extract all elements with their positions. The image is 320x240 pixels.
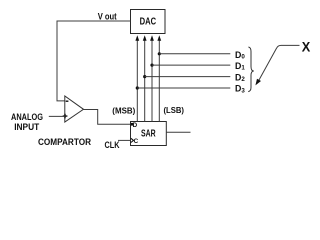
svg-text:CLK: CLK <box>105 140 120 151</box>
svg-text:COMPARTOR: COMPARTOR <box>38 137 91 148</box>
svg-text:C: C <box>134 138 139 145</box>
arrow from X to brace <box>255 45 299 85</box>
svg-text:D: D <box>133 122 138 129</box>
wire bit1 vertical <box>150 35 154 121</box>
wire comparator output to SAR D input <box>84 110 131 125</box>
junction bit2/D2 <box>143 75 146 78</box>
svg-text:V out: V out <box>98 12 117 22</box>
pin C clock wedge <box>131 138 134 142</box>
junction bit1/D1 <box>150 64 153 67</box>
svg-text:(MSB): (MSB) <box>112 106 135 116</box>
svg-text:INPUT: INPUT <box>14 122 39 133</box>
junction bit3/D3 <box>136 86 139 89</box>
SAR U2 <box>131 122 167 146</box>
brace for D bus <box>248 47 254 92</box>
junction bit0/D0 <box>158 52 161 55</box>
wire bit2 vertical <box>143 35 147 121</box>
wire bit0 vertical <box>157 35 161 121</box>
wire Vout feedback <box>57 21 131 101</box>
wire D1 <box>152 64 230 66</box>
wire D3 <box>137 87 230 89</box>
pin D marker <box>131 123 133 126</box>
wire CLK <box>118 139 131 141</box>
wire analog input <box>49 115 65 117</box>
label ANALOG INPUT <box>11 112 43 133</box>
svg-text:DAC: DAC <box>140 17 157 28</box>
svg-text:SAR: SAR <box>141 129 156 140</box>
wire SAR output <box>166 131 190 133</box>
op-amp comparator <box>63 96 84 122</box>
svg-text:(LSB): (LSB) <box>164 105 185 115</box>
svg-text:X: X <box>302 39 311 55</box>
wire D2 <box>145 76 231 78</box>
wire D0 <box>159 53 230 55</box>
wire bit3 MSB vertical <box>135 35 139 121</box>
DAC U1 <box>131 10 166 34</box>
